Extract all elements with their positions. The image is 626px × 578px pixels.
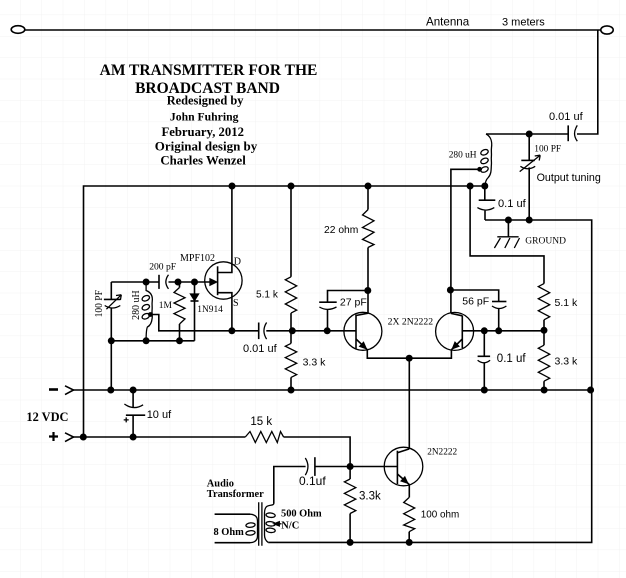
svg-text:Transformer: Transformer [207, 489, 264, 500]
svg-text:3.3 k: 3.3 k [555, 356, 579, 368]
svg-text:15 k: 15 k [250, 416, 272, 428]
svg-text:0.1 uf: 0.1 uf [497, 353, 527, 365]
svg-text:2N2222: 2N2222 [427, 448, 457, 458]
svg-text:Antenna: Antenna [426, 16, 470, 29]
svg-text:56 pF: 56 pF [462, 296, 489, 308]
svg-text:GROUND: GROUND [525, 237, 566, 247]
svg-text:0.1uf: 0.1uf [299, 474, 326, 488]
svg-text:0.1 uf: 0.1 uf [498, 198, 527, 210]
svg-text:1N914: 1N914 [197, 305, 223, 315]
svg-text:S: S [233, 298, 239, 309]
svg-text:280 uH: 280 uH [131, 290, 142, 320]
svg-text:John Fuhring: John Fuhring [170, 111, 239, 124]
svg-text:February, 2012: February, 2012 [161, 125, 243, 139]
svg-text:3 meters: 3 meters [502, 17, 545, 29]
svg-text:100 PF: 100 PF [94, 290, 105, 318]
svg-text:Output tuning: Output tuning [537, 172, 601, 184]
svg-text:500 Ohm: 500 Ohm [281, 509, 322, 520]
svg-text:0.01 uf: 0.01 uf [243, 343, 278, 355]
svg-text:27 pF: 27 pF [340, 297, 367, 309]
svg-text:3.3k: 3.3k [359, 491, 381, 503]
svg-text:N/C: N/C [281, 521, 299, 532]
svg-text:Original design by: Original design by [155, 138, 258, 153]
svg-text:100 PF: 100 PF [534, 144, 561, 154]
svg-text:AM TRANSMITTER FOR THE: AM TRANSMITTER FOR THE [100, 62, 318, 79]
svg-text:12 VDC: 12 VDC [26, 410, 68, 424]
svg-text:200 pF: 200 pF [149, 262, 176, 273]
svg-text:280 uH: 280 uH [449, 150, 477, 160]
svg-text:Charles Wenzel: Charles Wenzel [160, 154, 246, 168]
svg-text:2X 2N2222: 2X 2N2222 [388, 317, 434, 328]
svg-text:1M: 1M [159, 301, 173, 311]
svg-text:5.1 k: 5.1 k [555, 297, 579, 309]
svg-text:MPF102: MPF102 [180, 253, 215, 264]
svg-text:Audio: Audio [207, 479, 234, 490]
svg-text:D: D [234, 256, 241, 267]
svg-text:5.1 k: 5.1 k [256, 290, 279, 301]
svg-text:10 uf: 10 uf [147, 409, 172, 421]
svg-text:Redesigned by: Redesigned by [167, 93, 245, 107]
svg-text:100 ohm: 100 ohm [421, 510, 459, 521]
svg-text:3.3 k: 3.3 k [303, 357, 327, 369]
svg-text:22 ohm: 22 ohm [324, 225, 358, 236]
svg-text:0.01 uf: 0.01 uf [549, 111, 584, 123]
svg-text:8 Ohm: 8 Ohm [214, 527, 245, 538]
